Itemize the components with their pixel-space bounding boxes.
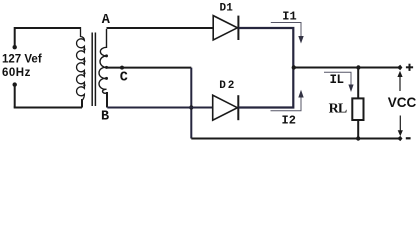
wire D1 cathode to corner	[238, 28, 293, 68]
ac source V1 loop	[14, 27, 82, 108]
VCC up arrow	[399, 77, 401, 92]
VCC down arrow	[399, 116, 401, 131]
current arrow IL	[324, 72, 351, 85]
minus terminal mark	[406, 137, 411, 139]
svg-text:B: B	[101, 110, 109, 125]
transformer T1 secondary winding	[99, 29, 107, 108]
resistor RL body	[357, 68, 359, 99]
wire top source	[14, 27, 81, 29]
junction dot RL top	[356, 65, 360, 69]
diode D2	[213, 95, 239, 120]
primary crossover dots	[83, 48, 85, 50]
current arrow I2	[271, 97, 302, 111]
plus rail end diamond	[397, 65, 403, 70]
junction dot RL bottom	[356, 136, 360, 140]
junction dot rectifier output	[292, 65, 296, 69]
wire A top rail to diode D1	[107, 27, 214, 29]
junction dot on C wire	[120, 66, 124, 70]
wire source left top	[14, 27, 16, 46]
plus terminal mark	[406, 64, 413, 71]
transformer T1 primary winding	[77, 27, 85, 108]
terminal dot top	[13, 45, 17, 49]
wire source left bottom	[14, 86, 16, 108]
junction dot C/B crossing	[189, 105, 193, 109]
current arrow I1	[271, 23, 301, 37]
wire bottom source	[14, 107, 82, 109]
svg-text:VCC: VCC	[388, 95, 417, 110]
wire C center tap	[107, 67, 192, 69]
svg-text:I1: I1	[282, 9, 296, 23]
svg-text:A: A	[102, 13, 111, 28]
svg-text:D2: D2	[219, 80, 236, 92]
output mid rail	[293, 67, 398, 69]
secondary junction dots	[105, 54, 108, 57]
transformer core	[91, 33, 93, 107]
svg-text:IL: IL	[330, 73, 344, 87]
svg-text:127 Vef: 127 Vef	[2, 53, 42, 65]
minus rail end diamond	[397, 136, 403, 141]
svg-text:D1: D1	[220, 3, 234, 15]
wire D2 cathode to corner up	[238, 68, 293, 108]
terminal dot bottom	[13, 82, 17, 86]
bottom rail	[191, 138, 398, 140]
svg-text:C: C	[120, 70, 128, 85]
wire C down to bottom rail	[190, 68, 192, 139]
svg-text:60Hz: 60Hz	[2, 67, 31, 79]
diode D1	[213, 16, 238, 40]
svg-text:I2: I2	[282, 114, 296, 128]
svg-text:RL: RL	[329, 102, 347, 117]
wire B to diode D2	[107, 107, 212, 109]
